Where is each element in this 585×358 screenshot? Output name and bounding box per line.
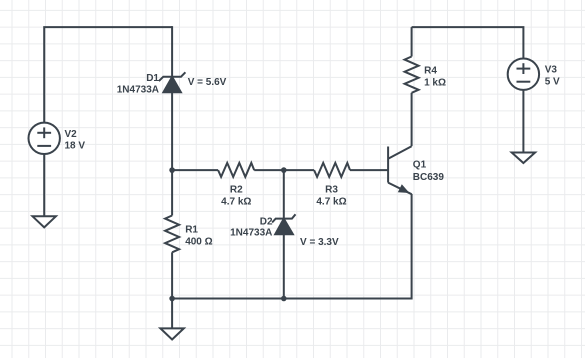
wire — [172, 169, 218, 171]
svg-text:400 Ω: 400 Ω — [185, 237, 212, 248]
zener diode D2 — [272, 214, 295, 234]
resistor R1 — [165, 216, 179, 253]
resistor R2 — [218, 163, 254, 177]
svg-text:R4: R4 — [424, 65, 437, 76]
svg-text:V = 3.3V: V = 3.3V — [300, 237, 339, 248]
svg-text:R3: R3 — [325, 185, 338, 196]
wire — [172, 194, 412, 299]
label Q1 — [413, 160, 445, 183]
svg-text:D1: D1 — [146, 73, 159, 84]
wire — [350, 169, 388, 171]
svg-text:4.7 kΩ: 4.7 kΩ — [221, 197, 251, 208]
label D2 — [230, 217, 273, 239]
node (junction R2/R3/D2) — [281, 167, 287, 173]
wire — [411, 27, 413, 56]
svg-text:BC639: BC639 — [413, 172, 445, 183]
resistor R3 — [314, 163, 350, 177]
label R3 — [316, 185, 346, 208]
wire — [44, 27, 172, 123]
label D1 — [117, 73, 160, 95]
ground (below V2) — [33, 216, 56, 227]
svg-text:18 V: 18 V — [65, 141, 86, 152]
zener diode D1 — [159, 72, 186, 92]
svg-text:Q1: Q1 — [413, 160, 427, 171]
wire — [171, 92, 173, 216]
wire — [522, 90, 524, 153]
voltage source V3 — [508, 58, 539, 89]
wire — [283, 234, 285, 299]
wire — [171, 26, 173, 92]
label V3 — [545, 64, 560, 87]
node (bottom D2 junction) — [281, 296, 287, 302]
svg-text:1N4733A: 1N4733A — [230, 228, 272, 239]
wire — [283, 170, 285, 219]
svg-text:1 kΩ: 1 kΩ — [424, 78, 446, 89]
voltage source V2 — [29, 123, 60, 154]
resistor R4 — [405, 57, 419, 93]
svg-text:V = 5.6V: V = 5.6V — [188, 77, 227, 88]
label R4 — [424, 65, 446, 88]
node (bottom left junction) — [169, 296, 175, 302]
label V2 — [65, 129, 86, 152]
svg-text:V2: V2 — [65, 129, 78, 140]
node (junction R1/R2) — [169, 167, 175, 173]
svg-text:5 V: 5 V — [545, 76, 560, 87]
svg-text:R2: R2 — [230, 185, 243, 196]
ground (bottom middle) — [160, 328, 183, 339]
svg-text:D2: D2 — [260, 217, 273, 228]
svg-text:V3: V3 — [545, 64, 558, 75]
wire — [171, 252, 173, 298]
wire — [411, 93, 413, 146]
wire — [43, 154, 45, 216]
wire — [412, 27, 524, 58]
svg-text:1N4733A: 1N4733A — [117, 84, 159, 95]
svg-text:R1: R1 — [185, 224, 198, 235]
ground (below V3) — [512, 153, 535, 164]
wire — [254, 169, 314, 171]
label R1 — [185, 224, 212, 247]
svg-text:4.7 kΩ: 4.7 kΩ — [316, 197, 346, 208]
wire — [171, 299, 173, 329]
label R2 — [221, 185, 251, 208]
transistor Q1 — [388, 146, 412, 194]
